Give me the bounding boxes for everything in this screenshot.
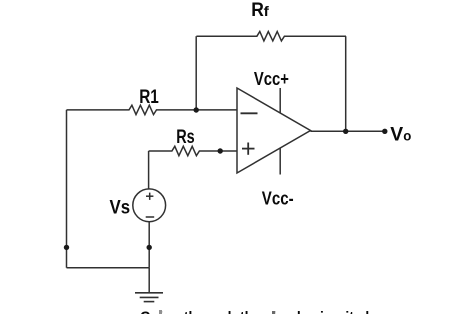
svg-text:R1: R1 [139,86,159,108]
svg-text:f: f [264,4,270,19]
svg-text:o: o [403,129,411,144]
svg-text:Vcc-: Vcc- [262,188,294,209]
svg-text:Vs: Vs [110,197,131,219]
svg-text:V: V [390,125,403,146]
svg-text:Vcc+: Vcc+ [254,68,289,89]
svg-text:R: R [251,0,264,21]
svg-text:Going through the simple circu: Going through the simple circuit abov [140,310,390,314]
svg-text:Rs: Rs [176,126,195,148]
